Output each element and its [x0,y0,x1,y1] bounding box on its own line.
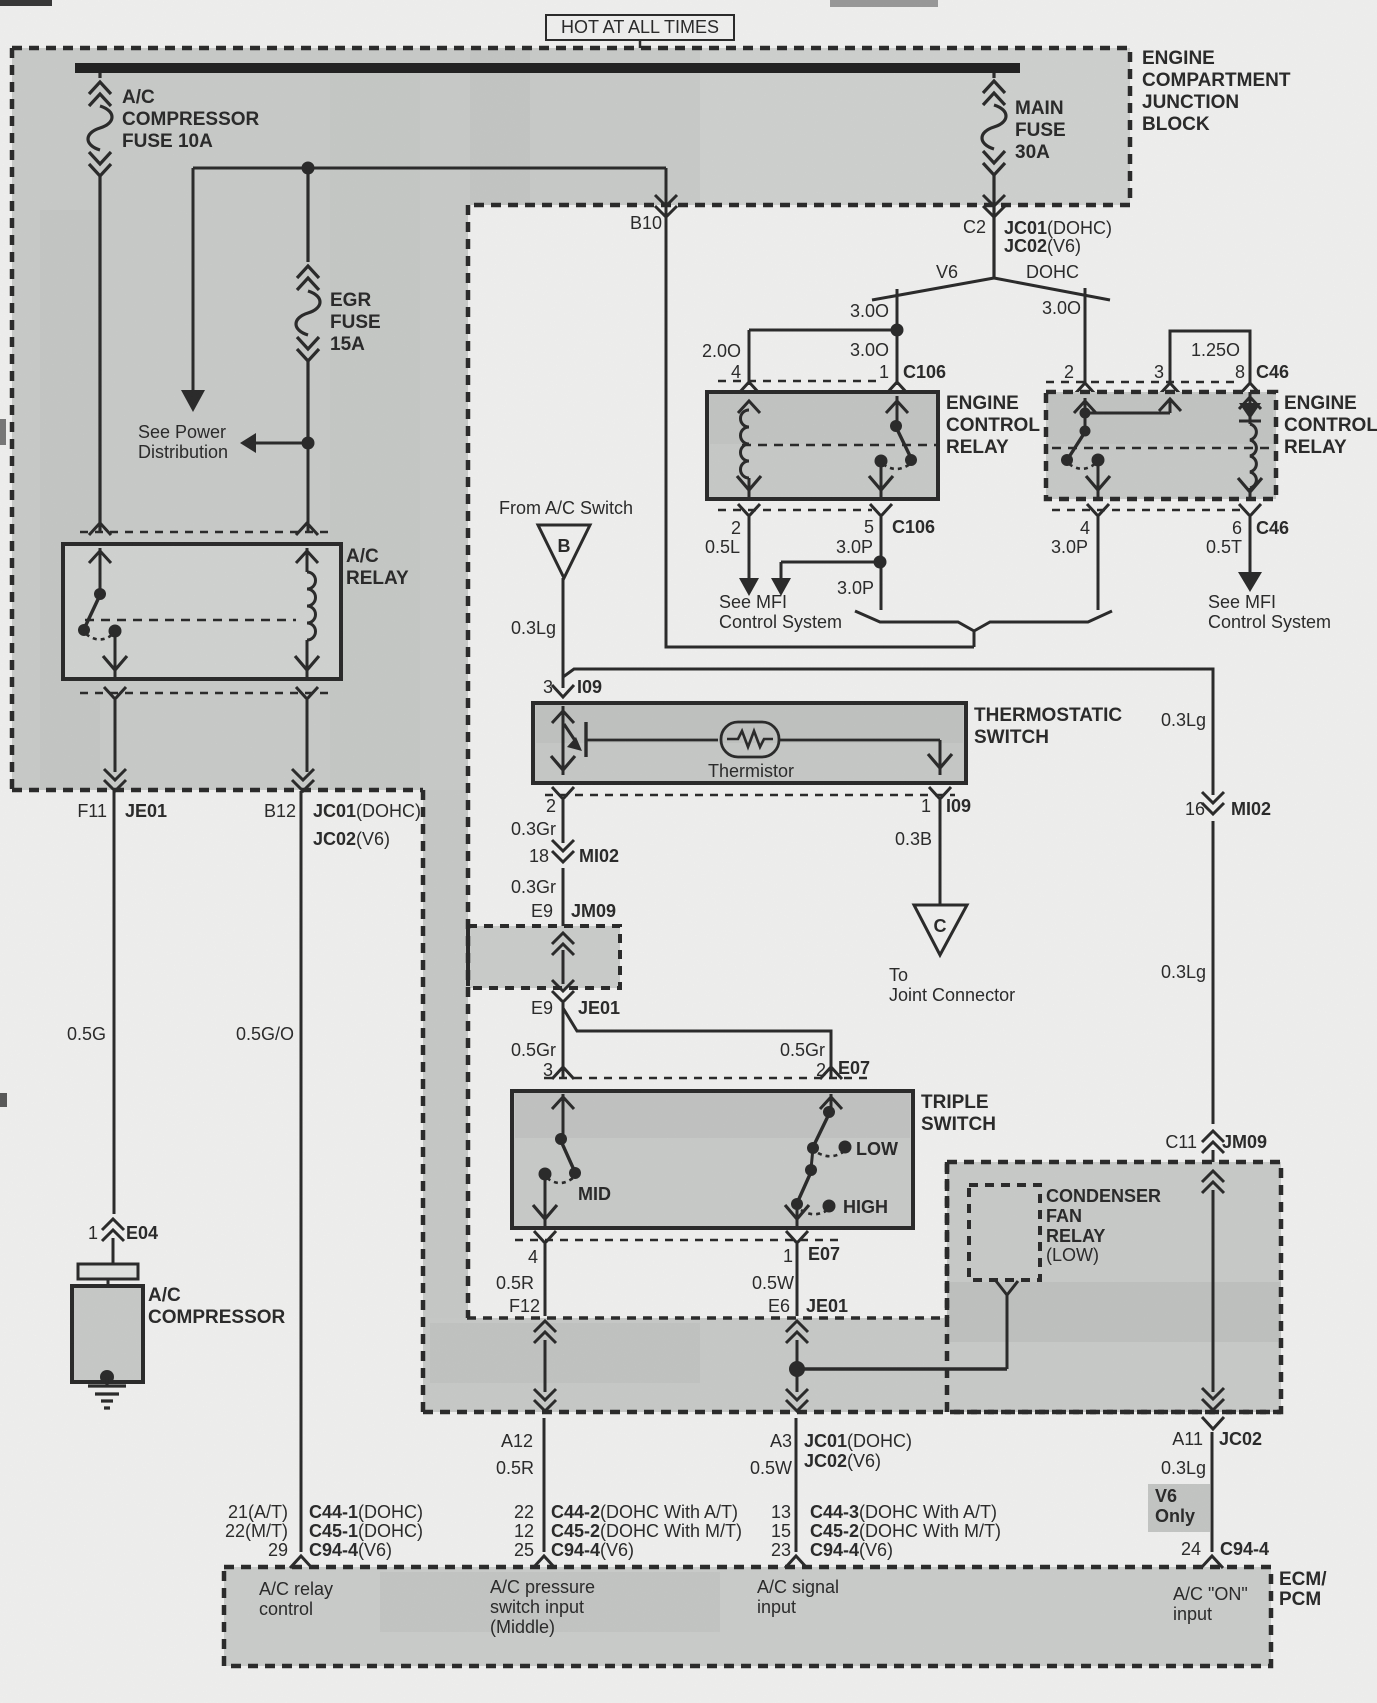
connector I09 pins 2 and 1 [545,787,971,816]
wire 0.5Gr split to triple switch pins 3 and 2 [511,1003,831,1078]
wire 0.5W to E6 JE01 [752,1244,848,1316]
triple switch harness dashed right x=947 [945,1162,950,1318]
connector C46 top pins 2 3 8 [1046,362,1289,395]
ECM/PCM box fill [224,1567,1271,1666]
junction block ENGINE COMPARTMENT JUNCTION BLOCK fill [12,48,1130,790]
fuse A/C COMPRESSOR FUSE 10A [88,73,112,532]
relay switch A/C [99,548,102,592]
connector B12 JC01/JC02 [264,700,421,849]
wire 3.0P from C46 pin 4 [1051,517,1098,610]
wire 0.5L with arrow to MFI [705,517,759,596]
wire 0.3Lg right riser MI02 to JM09 [1161,710,1271,1124]
connector E9 JE01 [531,998,620,1018]
node EGR junction to See Power Distribution [240,433,315,532]
wire 3.0P from pin 5 with junction [771,517,887,610]
fuse EGR FUSE 15A [296,168,320,437]
connector I09 pin 3 [543,677,602,697]
pin rows A/C pressure switch C44-2/C45-2/C94-4 [514,1502,742,1560]
connector C2 JC01/JC02 [963,195,1112,256]
label MAIN FUSE 30A [1015,98,1066,163]
relay A/C RELAY [63,523,341,699]
wire V6/DOHC split [872,278,1110,385]
fuse MAIN FUSE 30A [982,73,1006,278]
connector C106 bottom pins 2 and 5 [718,504,935,538]
connector 18 MI02 [529,840,619,866]
connector E6 crossing with junction to condenser relay output [786,1321,1007,1392]
connector A12 [496,1389,556,1552]
text See MFI Control System (left) [719,592,842,632]
relay ENGINE CONTROL RELAY C46 [1046,392,1276,499]
wire 0.3Gr thermo to MI02 [511,800,563,843]
relay coil C106 [741,410,750,478]
triangle connector C [889,905,1015,1005]
bus bar hot feed [75,63,1020,73]
wire 0.3B to joint connector C [895,800,940,905]
text See Power Distribution [138,422,228,462]
wire 0.3Gr MI02 to JM09 [511,868,563,926]
A/C compressor [72,1264,143,1382]
condenser fan relay output Y [996,1281,1018,1369]
joint connector JM09 box fill [468,926,620,988]
label HOT AT ALL TIMES [546,15,734,48]
wire B10 feed [630,168,974,647]
label A/C COMPRESSOR [148,1285,286,1328]
condenser fan relay inner dashed box [969,1185,1040,1280]
text A/C pressure switch input (Middle) [490,1577,595,1637]
label V6 Only [1148,1484,1210,1532]
thermostatic switch [533,703,966,783]
wire through condenser fan relay box [1202,1171,1224,1410]
connector F11 JE01 [77,700,167,821]
relay switch C106 [886,401,908,413]
connector C11 JM09 [1165,1131,1267,1162]
label THERMOSTATIC SWITCH [974,705,1122,748]
harness dashed vertical x=423 [421,790,426,1412]
joint connector JM09 box border [468,926,620,988]
ground (compressor case) [88,1370,126,1408]
connector A11 JC02 [1161,1417,1262,1552]
text A/C ON input [1173,1584,1248,1624]
label ECM/PCM [1279,1569,1327,1610]
connector C106 top pins 4 and 1 [718,362,946,394]
text See MFI Control System (right) [1208,592,1331,632]
connector A3 JC01/JC02 [750,1389,912,1552]
MID contact [555,1133,567,1145]
harness corridor gray strip [423,790,468,1318]
thermistor [721,722,779,757]
resistor 1.25O jumper [1170,331,1250,385]
connector JE01 dashed line y=1318 [467,1316,947,1320]
wire through JM09 joint connector [552,933,574,1002]
connector F12 crossing [534,1321,556,1392]
harness dashed vertical x=468 [466,205,471,1318]
thermal switch blade [564,724,576,742]
label A/C COMPRESSOR FUSE 10A [122,87,260,152]
scan smudges [0,0,52,6]
diode C46 [1249,392,1252,424]
ECM entry chevrons [290,1556,1223,1568]
harness dashed bottom y=1412 [423,1410,1281,1415]
pin rows A/C signal C44-3/C45-2/C94-4 [771,1502,1001,1560]
wire line A from bus junction [193,162,666,175]
wire 0.5R to F12 [496,1244,545,1316]
connector E04 [88,1219,158,1264]
label EGR FUSE 15A [330,290,381,355]
wire bundle merge of 3.0P feeds [855,611,1112,647]
junction block dashed border [12,48,1130,790]
label A/C RELAY [346,546,409,589]
relay coil A/C [296,551,318,563]
triple switch [512,1091,913,1228]
condenser fan relay outer dashed box [947,1162,1281,1412]
connector E07 top pins 3 and 2 [543,1058,870,1080]
relay ENGINE CONTROL RELAY C106 [707,392,938,499]
wire 0.3Lg from B [511,578,563,688]
wire 0.5G/O to ECM [236,791,301,1552]
condenser fan relay label [1046,1186,1161,1265]
ECM/PCM dashed box [224,1567,1271,1666]
wire 0.5T with arrow to MFI [1206,517,1262,592]
label E9 JM09 [531,901,616,921]
label ENGINE COMPARTMENT JUNCTION BLOCK [1142,48,1291,135]
connector C46 bottom pins 4 and 6 [1052,504,1289,538]
connector E07 bottom pins 4 and 1 [515,1231,840,1267]
wire 0.5G to compressor [67,791,114,1214]
label ENGINE CONTROL RELAY (C46) [1284,393,1377,458]
node line D to MI02 riser [563,669,1213,795]
label TRIPLE SWITCH [921,1092,996,1135]
text A/C relay control [259,1579,333,1619]
arrow See Power Distribution drop [181,168,205,412]
condenser fan relay box fill [947,1162,1281,1412]
wire 3.0O V6 branch junction [749,324,904,386]
label ENGINE CONTROL RELAY (C106) [946,393,1040,458]
scan noise overlay [0,0,1,1]
connector 24 C94-4 [1181,1539,1269,1559]
relay coil C46 [1250,424,1256,488]
triangle connector B From A/C Switch [499,498,633,578]
text A/C signal input [757,1577,839,1617]
pin rows A/C relay control C44-1/C45-1/C94-4 [225,1502,423,1560]
LOW/HIGH contacts [820,1097,842,1109]
